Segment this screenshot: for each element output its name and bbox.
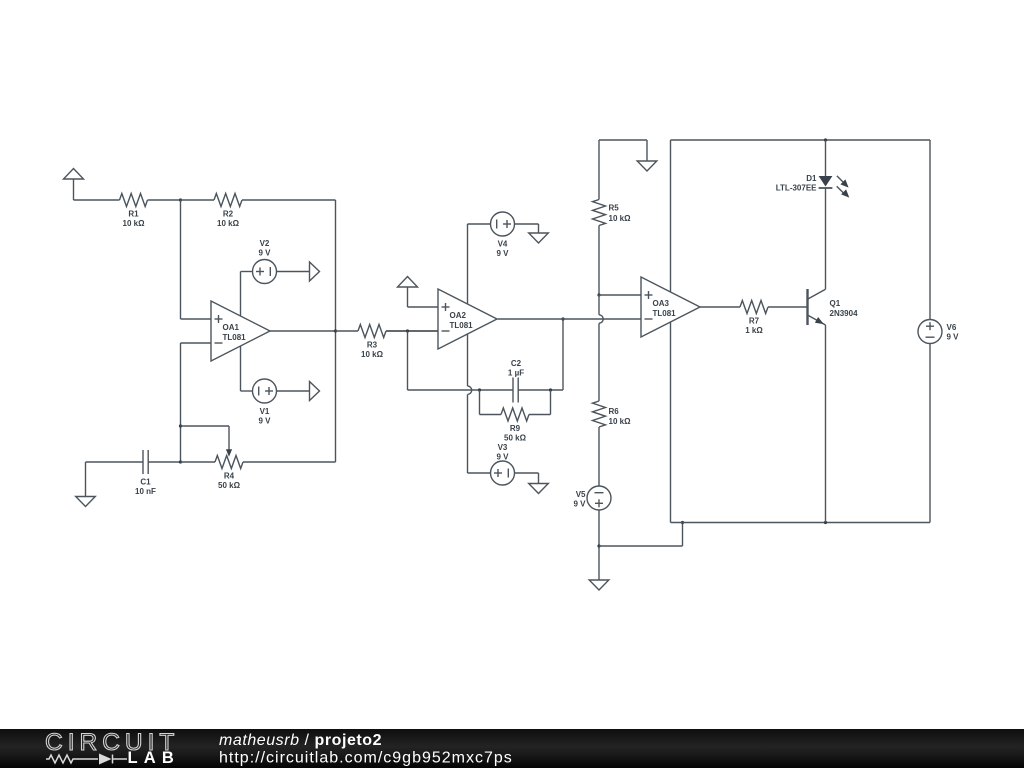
wire R1 to node [148,199,181,201]
potentiometer R4 [215,456,243,469]
node emitter rail [824,521,827,524]
svg-text:10 kΩ: 10 kΩ [609,214,632,223]
wire to R3 [336,330,359,332]
svg-text:50 kΩ: 50 kΩ [218,481,241,490]
wire R5 top to ground stub [599,139,647,141]
svg-text:LAB: LAB [128,749,181,767]
LED D1 [819,176,833,187]
wire V1 to output terminal [277,390,310,392]
svg-text:R1: R1 [128,209,139,218]
wire feedback bottom row [408,389,514,391]
wire feedback up to output [562,319,564,390]
wire OA1 V+ pin [240,272,242,317]
svg-text:9 V: 9 V [947,332,960,341]
wire V6 bottom [929,344,931,523]
wire V2 to output terminal [277,271,310,273]
svg-text:9 V: 9 V [496,452,509,461]
wire V4 to ground [515,223,539,225]
logo diode triangle [99,754,112,765]
resistor R7 [740,301,768,314]
node divider [597,293,600,296]
node bottom rail [681,521,684,524]
resistor R5 [593,200,606,226]
wire OA2 V- pin with hop [467,334,469,386]
svg-text:TL081: TL081 [653,309,677,318]
svg-text:V3: V3 [498,443,508,452]
voltage source V6 [918,320,942,344]
node top rail / D1 [824,138,827,141]
wire R9 left branch [479,390,481,415]
voltage source V2 [253,260,277,284]
Q1 emitter arrowhead [815,317,824,324]
node OA1 output / loop [334,329,337,332]
wire R9 right branch [529,414,551,416]
svg-text:V5: V5 [576,490,586,499]
voltage source V3 [491,461,515,485]
wire right loop vertical [335,200,337,462]
svg-text:R2: R2 [223,209,234,218]
ground (V3) [529,484,549,494]
wire V3 to ground [515,472,539,474]
wire OA2 V+ pin [467,224,469,304]
svg-text:Q1: Q1 [830,299,841,308]
capacitor C1 [142,450,144,474]
D1 emission arrows [837,176,843,182]
wire top rail [671,139,931,141]
wire feedback down [407,331,409,390]
svg-text:9 V: 9 V [496,249,509,258]
output terminal (V2) [310,262,320,281]
wire OA2 output to OA3 inverting input [498,318,642,320]
op-amp OA1 [211,301,270,361]
wire Q1 collector [825,189,827,290]
svg-text:V6: V6 [947,323,957,332]
svg-text:50 kΩ: 50 kΩ [504,434,527,443]
svg-text:9 V: 9 V [258,416,271,425]
svg-text:R6: R6 [609,407,620,416]
node R9 left [478,388,481,391]
wire node to R4 [181,461,216,463]
svg-text:V2: V2 [260,239,270,248]
wire C2 right [518,389,563,391]
wire C1 to node [148,461,180,463]
input terminal (OA2 +) [398,277,418,288]
node feedback tap [406,329,409,332]
wire R4 wiper [181,425,230,427]
wire input to R1 [74,199,120,201]
wire V6 top [929,140,931,320]
svg-text:C1: C1 [140,477,151,486]
wire OA3 V+ pin [670,140,672,292]
wire bottom rail [671,522,931,524]
resistor R1 [120,194,148,207]
svg-text:10 nF: 10 nF [135,487,156,496]
wire R3 to OA2 [386,330,438,332]
wire node to R2 [181,199,215,201]
node V5/ground/rail branch [597,544,600,547]
logo resistor-diode underline [46,755,127,764]
svg-text:9 V: 9 V [573,499,586,508]
wire D1 anode [825,140,827,176]
wire OA1 V- pin [240,346,242,391]
resistor R9 [501,408,529,421]
svg-text:TL081: TL081 [450,321,474,330]
wire branch to bottom rail [599,545,683,547]
wire divider down with hop [598,295,600,315]
svg-text:V4: V4 [498,239,508,248]
node feedback/output [561,317,564,320]
voltage source V4 [491,212,515,236]
wire ground to C1 [86,461,144,463]
transistor Q1 [806,289,808,325]
wire OA3 V- pin [670,322,672,523]
svg-text:V1: V1 [260,407,270,416]
svg-text:10 kΩ: 10 kΩ [361,350,384,359]
wire V5 down [598,510,600,580]
svg-text:D1: D1 [806,174,817,183]
svg-text:10 kΩ: 10 kΩ [609,417,632,426]
wire node down to + input [180,200,182,319]
wire R5 top lead [598,140,600,200]
wire terminal to OA2 + [408,306,439,308]
svg-text:OA3: OA3 [653,299,670,308]
wire R7 to Q1 base [768,306,808,308]
wire Q1 emitter down [825,325,827,523]
svg-text:matheusrb / projeto2: matheusrb / projeto2 [219,732,382,749]
capacitor C2 [512,378,514,403]
svg-text:OA2: OA2 [450,311,467,320]
node junction R1/R2 [179,198,182,201]
node R9 right [549,388,552,391]
wire R2 to right loop [242,199,336,201]
input terminal (top-left) [64,169,84,180]
wire R4 to right loop bottom [243,461,336,463]
svg-text:R9: R9 [510,424,521,433]
node wiper junction [179,424,182,427]
output terminal (V1) [310,382,320,401]
op-amp OA3 [641,277,700,337]
svg-text:R4: R4 [224,471,235,480]
svg-text:10 kΩ: 10 kΩ [123,219,146,228]
ground (C1) [76,497,96,507]
svg-text:R7: R7 [749,316,760,325]
ground (V4) [529,233,549,243]
svg-text:1 µF: 1 µF [508,368,524,377]
svg-text:OA1: OA1 [223,323,240,332]
svg-text:1 kΩ: 1 kΩ [745,326,763,335]
resistor R6 [593,401,606,427]
voltage source V1 [253,379,277,403]
svg-text:2N3904: 2N3904 [830,309,859,318]
svg-text:C2: C2 [511,359,522,368]
voltage source V5 [587,486,611,510]
wire R3 row to OA2 inverting input [386,330,438,332]
wire R6 to V5 [598,427,600,486]
ground (R5 top) [637,161,657,171]
wire node to OA3 + [599,294,641,296]
svg-text:http://circuitlab.com/c9gb952m: http://circuitlab.com/c9gb952mxc7ps [219,750,513,767]
wire R5 to node [598,226,600,296]
wire OA1 output [270,330,336,332]
wire OA3 output [700,306,740,308]
svg-text:10 kΩ: 10 kΩ [217,219,240,228]
ground (V5) [589,580,609,590]
svg-text:LTL-307EE: LTL-307EE [776,184,817,193]
wire OA1 inverting input feedback [181,342,212,344]
op-amp OA2 [438,289,497,349]
svg-text:9 V: 9 V [258,248,271,257]
R4 wiper arrowhead [226,449,232,457]
svg-text:R3: R3 [367,340,378,349]
resistor R3 [358,325,386,338]
node C1/R4/feedback [179,460,182,463]
svg-text:TL081: TL081 [223,333,247,342]
svg-text:R5: R5 [609,204,620,213]
resistor R2 [214,194,242,207]
